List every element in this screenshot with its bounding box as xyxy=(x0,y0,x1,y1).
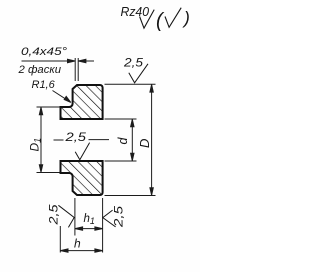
svg-text:R1,6: R1,6 xyxy=(32,79,56,91)
svg-text:): ) xyxy=(182,8,190,28)
section lower half outline xyxy=(61,161,103,195)
dimension D1 xyxy=(37,107,60,173)
bore roughness check xyxy=(75,143,89,160)
svg-text:D: D xyxy=(137,139,152,148)
svg-text:2 фаски: 2 фаски xyxy=(17,64,61,76)
roughness check mark 2 xyxy=(165,8,181,28)
dimension d xyxy=(105,119,137,161)
section upper half outline xyxy=(61,85,103,119)
svg-text:2,5: 2,5 xyxy=(123,58,144,70)
svg-text:h: h xyxy=(74,236,81,250)
section lower half hatching xyxy=(61,161,103,195)
dimension D xyxy=(105,84,156,195)
centerline axis xyxy=(54,139,110,141)
fillet radius leader R1,6 xyxy=(53,91,71,103)
svg-text:d: d xyxy=(116,137,130,145)
OD roughness check xyxy=(129,64,148,83)
svg-text:Rz40: Rz40 xyxy=(121,5,150,19)
left face roughness check xyxy=(58,205,74,227)
h1 extension lines xyxy=(75,198,103,253)
chamfer dimension 0,4x45 xyxy=(22,58,95,81)
h1 dimension line xyxy=(75,228,102,230)
svg-text:0,4x45°: 0,4x45° xyxy=(21,46,68,58)
h dimension line xyxy=(61,250,103,252)
svg-text:2,5: 2,5 xyxy=(49,204,61,226)
right face roughness check xyxy=(103,210,116,227)
roughness check mark 1 xyxy=(140,10,155,29)
h extension line left xyxy=(60,226,102,253)
svg-text:2,5: 2,5 xyxy=(114,205,126,228)
svg-text:2,5: 2,5 xyxy=(64,132,87,144)
section upper half hatching xyxy=(61,85,103,119)
